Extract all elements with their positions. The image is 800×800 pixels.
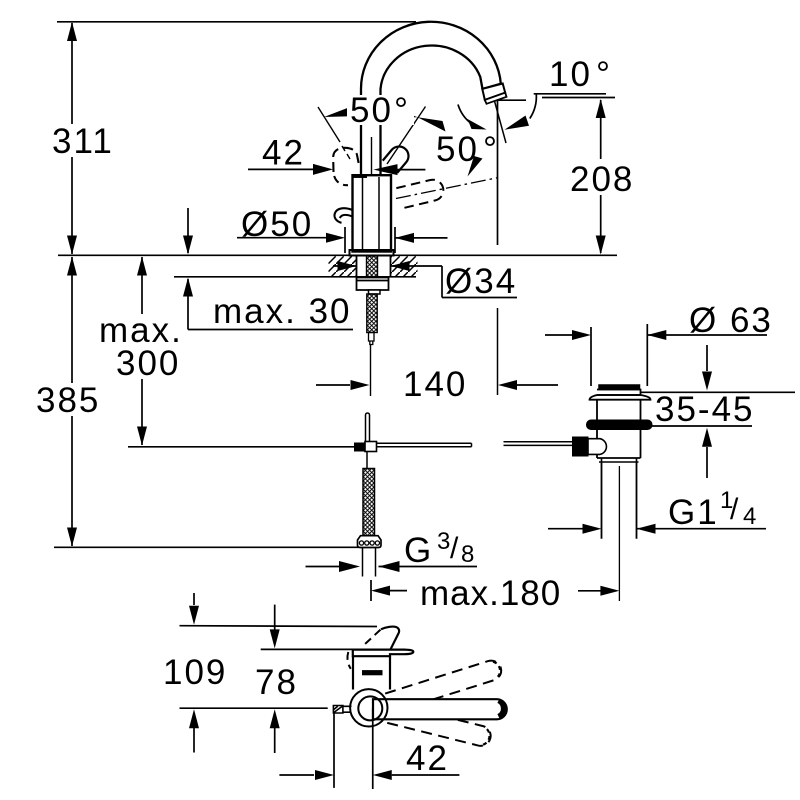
dimension max.30 [183,208,353,331]
drain tailpipe [602,462,637,539]
supply pipe far right [504,442,573,446]
top reference line [57,21,416,23]
drain collar [599,458,639,462]
svg-text:50°: 50° [350,91,410,130]
side view lever dashed up [385,658,504,713]
supply connection cross [355,443,366,451]
10 degree stream line [495,101,507,143]
drain knob [599,385,640,390]
spout tube [361,22,501,176]
svg-text:3: 3 [437,528,450,555]
side view: 78 top line [261,648,384,650]
dimension 311 [50,22,114,255]
svg-text:300: 300 [116,344,180,383]
side view: pivot axis line [180,707,328,709]
supply pipe right [376,443,472,447]
lever dashed right (lowered) [396,178,445,209]
label 10deg [534,93,606,95]
counter underside line [174,276,416,278]
label G3/8 [306,528,478,572]
svg-text:50°: 50° [436,130,499,169]
svg-text:35-45: 35-45 [655,390,755,429]
lever hook at body left [334,208,352,223]
svg-text:10°: 10° [549,55,612,94]
lever axis dashed (left, open position) [318,107,340,142]
lever dashed left (capsule) [333,148,359,172]
svg-text:4: 4 [743,503,756,530]
side view collar [353,650,414,657]
label G1 1/4 [548,487,766,534]
svg-text:G1: G1 [668,493,719,532]
shank tube through deck [357,256,391,278]
dimension 78 [252,605,299,753]
svg-text:385: 385 [36,381,100,420]
svg-text:Ø50: Ø50 [241,205,313,244]
drain lower body [597,430,641,459]
svg-text:109: 109 [163,653,227,692]
stream line [497,101,499,245]
lever axis solid (right) [387,107,426,165]
svg-text:G: G [404,531,433,570]
centerline below shank [370,344,372,396]
nut step [369,290,381,294]
dimension 35-45 [640,345,795,478]
svg-text:208: 208 [570,160,634,199]
lever solid horn [383,143,413,173]
counter top line [58,254,617,256]
aerator [482,84,505,100]
dimension diam63 [545,301,773,340]
svg-text:311: 311 [52,122,114,161]
drain centerline [618,466,620,601]
drain flare [590,395,651,400]
svg-text:/: / [450,532,459,565]
threaded rod [367,294,377,333]
G3/8 nut [358,536,382,548]
50 degree (label 2) [396,178,497,199]
side view lever dashed down [385,703,493,748]
dimension max.180 [371,574,619,613]
mounting nut [357,278,389,291]
deck hatching left [329,256,357,276]
dimension diam34 [333,261,517,301]
side view lever fin (up position) [381,627,399,650]
outlet level line [497,99,526,101]
dimension 208 [542,98,638,255]
braided hose [366,451,368,468]
dimension 42 (top) [248,134,425,176]
svg-text:Ø34: Ø34 [445,262,517,301]
svg-text:/: / [730,493,739,526]
hose tails [363,548,376,577]
dimension diam50 [237,205,448,253]
svg-text:Ø 63: Ø 63 [689,301,773,340]
10 degree arc [458,105,473,125]
drain upper body [597,400,641,420]
50 degree arrows (label 1) [324,107,351,117]
side view pivot circles [350,689,387,726]
svg-text:max. 30: max. 30 [213,292,352,331]
base plate [350,250,394,256]
svg-text:78: 78 [255,663,298,702]
svg-text:42: 42 [406,739,449,778]
dimension 140 [316,365,558,404]
dimension 385 [33,257,359,548]
svg-text:42: 42 [262,134,305,173]
popup rod connector [573,437,589,456]
faucet body [371,137,373,175]
drain oring flange [587,420,653,430]
svg-text:140: 140 [403,365,467,404]
popup drain: extension lines [590,327,592,386]
supply hose upper [366,413,370,441]
side view body [353,656,390,689]
label 50deg (1) [347,95,414,125]
dimension 42 (bottom) [279,708,459,789]
dimension 109 [160,593,230,753]
side view supply stub [333,706,351,714]
rod tip [369,333,375,345]
side view lever solid [373,699,507,719]
svg-text:max.180: max.180 [420,574,561,613]
threaded stud in shank [367,256,378,278]
deck hatching right [391,256,418,276]
side view: 109 top line [180,625,378,628]
svg-text:8: 8 [461,541,474,568]
dimension max.300 [96,257,355,447]
